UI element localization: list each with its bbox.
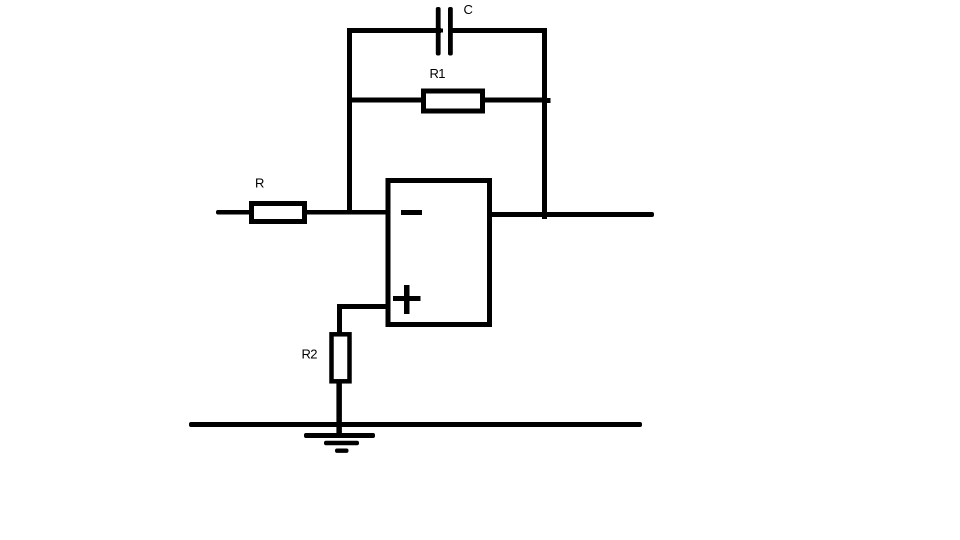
svg-text:R1: R1 [430, 66, 446, 81]
svg-text:R2: R2 [302, 347, 318, 362]
svg-text:R: R [255, 176, 264, 191]
svg-text:C: C [464, 2, 473, 17]
